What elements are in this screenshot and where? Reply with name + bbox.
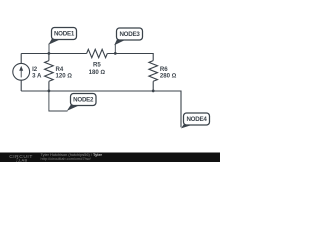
- node NODE3: [114, 28, 142, 54]
- wire left top: [20, 54, 22, 64]
- node C junction R4 bottom: [48, 90, 51, 93]
- svg-text:NODE1: NODE1: [54, 31, 75, 38]
- svg-text:NODE2: NODE2: [73, 97, 94, 104]
- node B junction NODE3 tap: [114, 52, 117, 55]
- node D junction R6 bottom: [152, 90, 155, 93]
- footer logo CIRCUIT LAB: [9, 154, 33, 163]
- wire left bottom: [20, 80, 22, 91]
- svg-text:http://circuitlab.com/cmd7hw/: http://circuitlab.com/cmd7hw/: [41, 156, 92, 161]
- footer bar: [0, 153, 220, 163]
- resistor R6: [149, 61, 158, 82]
- node NODE4: [181, 113, 210, 128]
- node A junction NODE1/R4 top: [48, 52, 51, 55]
- wire R4 top lead: [48, 54, 50, 61]
- svg-text:280 Ω: 280 Ω: [160, 73, 177, 80]
- footer attribution text: [41, 152, 103, 161]
- wire bottom: [21, 91, 181, 127]
- current source I2: [13, 63, 30, 80]
- svg-text:NODE3: NODE3: [119, 31, 140, 38]
- resistor R4: [45, 61, 54, 82]
- node NODE1: [48, 28, 76, 54]
- svg-text:120 Ω: 120 Ω: [56, 73, 73, 80]
- svg-text:⎍LAB: ⎍LAB: [16, 158, 27, 163]
- wire top right segment: [107, 54, 153, 61]
- wire R4 bottom lead: [48, 81, 50, 91]
- node NODE2: [49, 91, 96, 111]
- resistor R5: [87, 49, 108, 57]
- svg-text:180 Ω: 180 Ω: [89, 69, 106, 76]
- wire top left segment: [21, 53, 86, 55]
- svg-text:R5: R5: [93, 62, 101, 69]
- svg-text:NODE4: NODE4: [186, 116, 207, 123]
- wire R6 bottom lead: [152, 81, 154, 91]
- svg-text:3 A: 3 A: [32, 73, 42, 80]
